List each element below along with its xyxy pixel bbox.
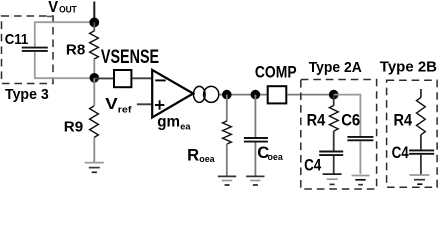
- wire circles to COMP node: [219, 94, 267, 96]
- wire gray bottom of C11 branch: [35, 52, 90, 78]
- wire R4 (2A) top: [333, 95, 335, 106]
- svg-text:R4: R4: [394, 112, 413, 130]
- wire R4 (2B) stub: [420, 89, 422, 98]
- capacitor C4 (2B) plates: [409, 149, 434, 151]
- capacitor C6 plates: [347, 136, 373, 138]
- Type 2B dashed box: [387, 80, 438, 187]
- wire gray top of C11 branch: [35, 22, 95, 46]
- wire R8 to VSENSE node: [93, 59, 95, 78]
- svg-text:gm: gm: [157, 113, 180, 130]
- VSENSE box: [114, 70, 131, 87]
- svg-text:COMP: COMP: [255, 63, 297, 82]
- svg-text:ref: ref: [118, 104, 133, 115]
- svg-text:oea: oea: [268, 152, 284, 163]
- node dot Type 2A: [329, 90, 339, 100]
- ground under C_oea: [246, 176, 264, 185]
- node VSENSE junction dot: [90, 73, 100, 83]
- svg-text:C4: C4: [392, 144, 410, 162]
- svg-text:C11: C11: [5, 31, 29, 48]
- COMP box: [268, 86, 287, 103]
- svg-text:C4: C4: [304, 156, 322, 174]
- svg-text:ea: ea: [180, 122, 191, 133]
- op-amp minus sign: [155, 79, 165, 81]
- Type 3 dashed box: [2, 16, 54, 84]
- svg-text:R8: R8: [66, 42, 85, 58]
- wire R4 to C4 (2A): [333, 131, 335, 151]
- node V_OUT junction dot: [89, 18, 99, 28]
- resistor R8: [90, 31, 99, 59]
- wire dot to R8: [93, 22, 95, 31]
- svg-text:oea: oea: [199, 154, 215, 165]
- wire C4 (2B) to ground: [420, 155, 422, 175]
- wire box to op-amp inverting input: [132, 77, 151, 79]
- capacitor C11 plates: [22, 47, 48, 49]
- resistor R_oea: [223, 121, 232, 144]
- wire V_ref to op-amp + input: [137, 103, 152, 105]
- wire node to C6 branch: [334, 95, 361, 137]
- node dot at C_oea: [251, 90, 261, 100]
- wire C4 (2A) to ground: [333, 156, 335, 174]
- svg-text:V: V: [48, 0, 58, 16]
- wire R9 to ground: [93, 138, 95, 164]
- Type 2A dashed box: [301, 80, 377, 190]
- op-amp plus sign: [155, 104, 164, 106]
- ground (gray) under C6: [352, 176, 370, 185]
- wire V_OUT vertical black: [93, 2, 95, 23]
- ground under R_oea: [218, 176, 236, 185]
- resistor R4 (Type 2B): [417, 98, 426, 135]
- wire C_oea to ground: [254, 143, 256, 176]
- svg-text:R: R: [187, 146, 199, 165]
- svg-text:V: V: [105, 96, 118, 113]
- svg-text:Type 3: Type 3: [5, 86, 49, 103]
- wire R4 to C4 (2B): [420, 135, 422, 150]
- current source circle 2: [204, 86, 219, 102]
- svg-text:R4: R4: [307, 112, 326, 130]
- ground (gray) under R9: [85, 163, 104, 173]
- current source circle 1: [194, 86, 206, 102]
- wire C6 to ground: [359, 141, 361, 174]
- svg-text:Type 2B: Type 2B: [380, 59, 437, 76]
- svg-text:C6: C6: [341, 112, 360, 130]
- wire VSENSE node to box: [94, 77, 113, 79]
- wire COMP box to Type 2A node: [287, 94, 333, 96]
- ground under C4 (2B): [410, 175, 430, 184]
- svg-text:Type 2A: Type 2A: [309, 59, 362, 76]
- resistor R4 (Type 2A): [329, 106, 338, 132]
- capacitor C_oea plates: [244, 137, 268, 139]
- node dot at R_oea: [222, 90, 232, 100]
- capacitor C4 (2A) plates: [319, 151, 343, 153]
- V_OUT leader tick: [47, 17, 53, 23]
- resistor R9: [90, 106, 99, 138]
- op-amp U1 triangle: [152, 70, 193, 118]
- wire R_oea top: [226, 95, 228, 121]
- svg-text:VSENSE: VSENSE: [101, 47, 159, 68]
- svg-text:OUT: OUT: [59, 3, 77, 14]
- wire C_oea top: [254, 95, 256, 137]
- ground under C4 (2A): [323, 174, 342, 184]
- svg-text:R9: R9: [64, 119, 83, 135]
- wire R_oea to ground: [226, 144, 228, 176]
- wire R9 top (VSENSE node down): [93, 78, 95, 106]
